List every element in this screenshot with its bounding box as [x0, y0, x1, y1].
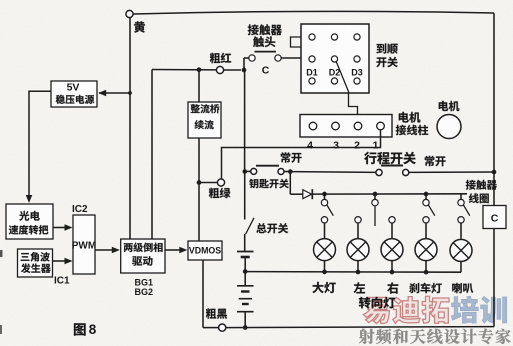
wire limit switch to trunk: [409, 171, 494, 173]
junction right trunk / limit-switch rail: [492, 170, 497, 175]
wire VDMOS to bottom rail: [202, 260, 204, 328]
label contactor contact: [248, 24, 282, 47]
label NO chang-kai limit: [425, 156, 446, 166]
watermark yiditop training red/blue + gray tagline: [359, 296, 511, 344]
label IC1: [54, 276, 70, 287]
label DAO-SHUN switch: [376, 43, 397, 67]
motor symbol: [437, 115, 461, 139]
label motor terminal block: [396, 112, 428, 135]
wire VDMOS feed column: [198, 70, 200, 241]
node YELLOW connector (huang): [126, 10, 145, 32]
switch headlight: [321, 194, 333, 216]
box IC2 PWM: [72, 215, 96, 274]
arrow into 5V supply: [98, 90, 106, 97]
wire right trunk lower: [493, 229, 495, 327]
box photoelectric speed twist-grip: [6, 204, 53, 239]
lamp SHACHEDENG brake: [415, 217, 437, 273]
junction lamp bus brake: [424, 192, 429, 197]
junction battery mid node: [243, 269, 248, 274]
label headlight: [312, 282, 335, 293]
junction green branch: [197, 180, 202, 185]
junction lamp bus headlight: [322, 192, 327, 197]
wire main switch upper: [244, 172, 246, 220]
arrow driver to VDMOS: [165, 247, 187, 254]
arrow triangle-gen to PWM: [53, 258, 73, 265]
box motor terminal block: [300, 115, 392, 138]
wire right trunk upper: [493, 13, 495, 205]
wire VDMOS column to green connector: [199, 182, 217, 184]
arrow PWM to driver: [95, 247, 120, 254]
label right: [387, 282, 398, 293]
wire top rail: [133, 11, 494, 14]
lamp LABA horn: [450, 217, 472, 273]
wire bottom rail right: [226, 327, 494, 328]
junction key switch node: [242, 169, 247, 174]
label master switch: [256, 223, 288, 233]
label left: [354, 282, 365, 293]
label IC2: [72, 204, 88, 215]
label limit switch: [364, 152, 416, 164]
tab on reversing switch: [291, 37, 302, 47]
switch contactor main contact: [244, 52, 301, 70]
switch limit (xingcheng): [376, 166, 409, 176]
label figure 8: [74, 322, 97, 337]
switch turn-signal selector: [372, 194, 378, 226]
wire bottom rail left: [203, 327, 219, 329]
box rectifier-bridge freewheel: [188, 102, 221, 138]
label BG1 BG2: [135, 278, 154, 298]
arrow into photo speed grip: [26, 195, 33, 203]
wire terminal1 to thick-green: [222, 130, 381, 179]
box U-5V regulated supply: [51, 81, 97, 107]
junction battery bottom node: [243, 325, 248, 330]
wire thick-red rail: [152, 69, 241, 72]
wire main switch lower: [244, 234, 246, 252]
lamp DADENG headlight: [314, 217, 336, 273]
wire key node down to diode: [289, 172, 291, 195]
box U-triangle wave generator: [18, 249, 53, 277]
label turn signal: [359, 297, 395, 309]
junction key out node: [288, 169, 293, 174]
lamp YOU right turn: [381, 217, 403, 273]
wire key column: [244, 70, 246, 172]
label contactor coil: [466, 180, 497, 203]
label motor: [439, 101, 460, 111]
box VDMOS power stage: [188, 241, 222, 260]
junction thick-red / key column: [242, 68, 247, 73]
junction thick-red / VDMOS column: [197, 67, 202, 72]
junction return left: [356, 270, 361, 275]
box C contactor coil: [483, 206, 506, 229]
reversing switch contacts 3x3: [309, 34, 360, 84]
switch brake: [423, 194, 435, 216]
wire trunk to 5V supply: [99, 91, 132, 95]
labels D1 D2 D3: [306, 68, 363, 78]
junction return brake: [424, 270, 429, 275]
junction return right: [390, 270, 395, 275]
arrow speed-grip to PWM: [53, 224, 73, 231]
connector CU-LV thick green: [209, 179, 231, 198]
connector CU-HONG thick red: [210, 53, 231, 74]
battery cell upper: [237, 252, 254, 272]
wire yellow trunk vertical: [129, 18, 131, 240]
switch key (yaoshi): [245, 166, 288, 175]
battery pack lower: [237, 272, 254, 328]
junction lamp bus selector: [373, 192, 378, 197]
switch master (zong): [246, 218, 254, 234]
diode D: [290, 189, 312, 199]
switch horn: [458, 194, 470, 216]
labels 4 3 2 1: [307, 140, 379, 152]
scan artifact marks: [0, 250, 3, 334]
box two-stage inverting driver: [121, 239, 165, 273]
label horn: [452, 283, 473, 293]
wire D2 to terminal 2: [336, 62, 357, 122]
wire key-switch rail to limit switch: [292, 171, 376, 174]
box reversing switch: [301, 24, 369, 93]
label C under contact: [262, 65, 270, 77]
wire red rail drop to driver: [151, 70, 153, 240]
wire 5V supply to speed-grip: [29, 91, 51, 197]
wire lamp return bus: [245, 271, 461, 274]
wire lamp bus: [313, 193, 467, 195]
label key switch: [249, 179, 289, 188]
junction return headlight: [322, 270, 327, 275]
connector CU-HEI thick black: [206, 308, 227, 331]
lamp ZUO left turn: [347, 217, 369, 273]
label brake light: [409, 283, 441, 293]
label NC chang-kai key: [281, 152, 302, 162]
